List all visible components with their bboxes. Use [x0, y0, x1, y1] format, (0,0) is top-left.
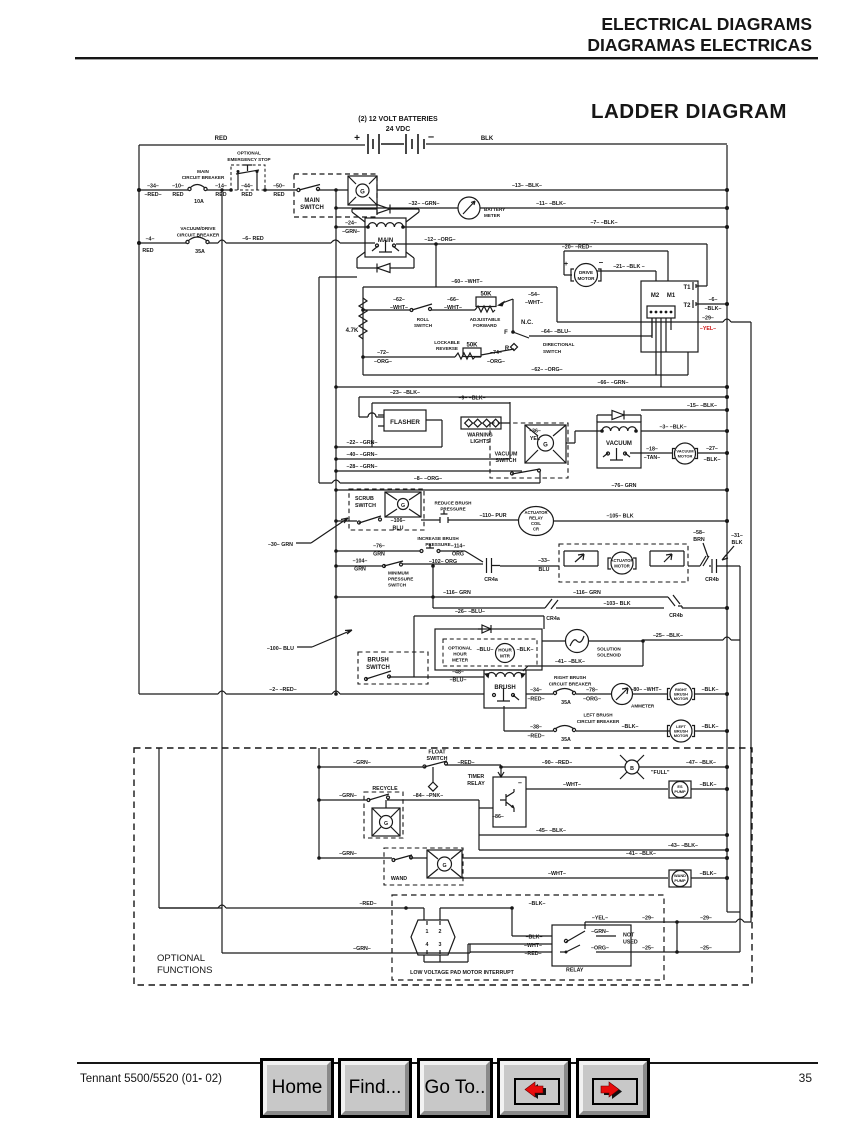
svg-text:CR4a: CR4a: [484, 577, 498, 583]
wire 41 BLK upper: [523, 641, 643, 671]
svg-text:FORWARD: FORWARD: [473, 323, 497, 328]
svg-text:4: 4: [426, 942, 429, 948]
svg-text:REVERSE: REVERSE: [436, 346, 458, 351]
wire 21 BLK: [597, 271, 656, 281]
svg-text:–31–: –31–: [731, 533, 743, 539]
svg-text:ADJUSTABLE: ADJUSTABLE: [470, 317, 501, 322]
svg-text:BRUSH: BRUSH: [494, 685, 515, 691]
horn G1: [348, 176, 377, 205]
svg-text:–40– –GRN–: –40– –GRN–: [347, 452, 378, 458]
motor M-vacuum: [673, 443, 698, 464]
svg-text:F: F: [504, 330, 508, 336]
svg-text:–30– GRN: –30– GRN: [268, 542, 293, 548]
svg-text:GRN: GRN: [354, 567, 366, 573]
footer buttons: [260, 1058, 334, 1118]
svg-text:–GRN–: –GRN–: [342, 229, 360, 235]
svg-text:MOTOR: MOTOR: [674, 696, 689, 701]
svg-text:3: 3: [439, 942, 442, 948]
motor M-right brush: [668, 683, 695, 705]
contactor K1 MAIN: [352, 205, 419, 273]
svg-text:MINIMUM: MINIMUM: [388, 571, 409, 576]
svg-text:–105– BLK: –105– BLK: [606, 514, 633, 520]
svg-text:G: G: [401, 503, 405, 509]
svg-text:PUMP: PUMP: [674, 789, 686, 794]
svg-text:–62– –ORG–: –62– –ORG–: [531, 367, 562, 373]
wire 62 WHT row y310: [363, 309, 475, 311]
svg-text:–BLK–: –BLK–: [702, 724, 719, 730]
wire main switch row y190: [139, 189, 727, 191]
motor M-left brush: [668, 720, 695, 742]
svg-text:–29–: –29–: [700, 916, 712, 922]
svg-text:SCRUB: SCRUB: [355, 496, 374, 502]
svg-text:–: –: [599, 258, 604, 267]
wire 28 GRN row y471: [336, 470, 522, 472]
wire YEL 29 relay out: [585, 919, 751, 926]
horn G4 recycle: [372, 808, 400, 836]
svg-text:BLK: BLK: [481, 136, 494, 142]
wire 43 BLK row y850: [479, 835, 727, 850]
svg-text:–62–: –62–: [393, 297, 405, 303]
controller U1 box: [641, 281, 698, 352]
svg-text:–BLK–: –BLK–: [700, 871, 717, 877]
svg-text:–104–: –104–: [353, 559, 368, 565]
svg-text:SWITCH: SWITCH: [355, 503, 376, 509]
svg-text:ROLL: ROLL: [417, 317, 430, 322]
wire RED row y909: [159, 905, 424, 908]
wire 72 ORG row y357: [363, 356, 455, 358]
svg-text:CR4b: CR4b: [669, 613, 684, 619]
svg-text:–: –: [518, 780, 522, 787]
wire scrub row y521: [336, 520, 357, 522]
svg-text:GRN: GRN: [373, 552, 385, 558]
svg-text:+: +: [564, 261, 568, 268]
svg-text:–ORG–: –ORG–: [487, 359, 505, 365]
svg-text:–28– –GRN–: –28– –GRN–: [347, 464, 378, 470]
svg-text:+: +: [354, 133, 360, 144]
terminal T2: [683, 297, 729, 312]
svg-text:–25–: –25–: [642, 946, 654, 952]
header title block: [75, 14, 818, 123]
wire float row y767: [319, 765, 727, 767]
wire 66 GRN row y387: [336, 386, 727, 388]
svg-text:–TAN–: –TAN–: [644, 455, 660, 461]
potentiometer R3 50K lockable reverse: [434, 340, 514, 359]
wire 22 GRN row y447: [336, 446, 442, 448]
wire 105 BLK: [554, 520, 728, 522]
svg-text:ORG: ORG: [452, 552, 464, 558]
resistor R1 4.7K: [346, 298, 367, 339]
svg-text:–2– –RED–: –2– –RED–: [269, 687, 296, 693]
svg-text:CR4a: CR4a: [546, 616, 560, 622]
svg-text:–WHT–: –WHT–: [548, 871, 566, 877]
wire 116 GRN row y597: [336, 596, 663, 598]
wire 26 BLU loop: [414, 616, 544, 677]
solution solenoid L1: [542, 630, 643, 658]
switch S-vacuum: [490, 423, 568, 478]
svg-text:–BLK–: –BLK–: [702, 687, 719, 693]
svg-text:CIRCUIT BREAKER: CIRCUIT BREAKER: [549, 682, 592, 687]
svg-text:MTR: MTR: [500, 654, 511, 659]
wire 20 RED drive motor: [564, 251, 668, 281]
wire 29 YEL: [557, 319, 751, 922]
svg-text:OPTIONAL: OPTIONAL: [237, 151, 261, 156]
svg-text:–41– –BLK–: –41– –BLK–: [626, 851, 656, 857]
svg-text:–110– PUR: –110– PUR: [479, 513, 506, 519]
svg-text:–BLU–: –BLU–: [477, 647, 494, 653]
svg-text:–GRN–: –GRN–: [353, 760, 371, 766]
svg-text:–3– –BLK–: –3– –BLK–: [659, 425, 686, 431]
contact CR4a lower: [545, 599, 560, 609]
svg-text:MOTOR: MOTOR: [577, 276, 595, 281]
svg-text:–25–: –25–: [700, 946, 712, 952]
wire 4 RED breaker row y243: [139, 240, 375, 243]
switch S-reduce brush pressure: [421, 501, 477, 524]
svg-text:–WHT–: –WHT–: [563, 782, 581, 788]
svg-text:–6– RED: –6– RED: [242, 236, 264, 242]
svg-text:–27–: –27–: [706, 446, 718, 452]
annotation arrow 100 BLU: [297, 630, 352, 647]
svg-text:–45– –BLK–: –45– –BLK–: [536, 828, 566, 834]
svg-text:–54–: –54–: [528, 292, 540, 298]
far-right vertical x740: [739, 566, 741, 952]
svg-text:FUNCTIONS: FUNCTIONS: [157, 965, 212, 976]
wire wand row y858: [319, 857, 727, 859]
switch S-float: [423, 750, 448, 792]
svg-text:BLU: BLU: [539, 567, 550, 573]
svg-text:–34–: –34–: [147, 184, 159, 190]
svg-text:INCREASE BRUSH: INCREASE BRUSH: [417, 536, 459, 541]
svg-text:–72–: –72–: [377, 350, 389, 356]
left rail: [138, 145, 140, 694]
svg-text:–ORG–: –ORG–: [591, 946, 609, 952]
annotation arrow 30 GRN: [296, 518, 348, 543]
svg-text:–: –: [428, 131, 434, 143]
svg-text:–BLK–: –BLK–: [529, 901, 546, 907]
svg-text:METER: METER: [484, 213, 501, 218]
wire WHT es pump row y789: [526, 788, 668, 790]
svg-text:RED: RED: [215, 192, 226, 198]
switch S-brush: [358, 652, 428, 684]
wire 32 GRN row y208: [336, 207, 458, 209]
svg-text:M2: M2: [651, 293, 660, 299]
svg-text:B: B: [630, 766, 634, 772]
svg-text:–RED–: –RED–: [527, 734, 544, 740]
svg-text:BLK: BLK: [732, 540, 743, 546]
svg-text:–43– –BLK–: –43– –BLK–: [668, 843, 698, 849]
svg-text:–66– –GRN–: –66– –GRN–: [598, 380, 629, 386]
svg-text:–102– ORG: –102– ORG: [429, 559, 457, 565]
wire 12 ORG: [396, 244, 707, 287]
svg-text:–44–: –44–: [241, 184, 253, 190]
switch S-wand: [384, 848, 463, 885]
svg-text:35A: 35A: [561, 700, 571, 706]
wire wand pump row y878: [462, 877, 668, 879]
actuator motor assembly: [559, 544, 688, 582]
svg-text:LOW VOLTAGE PAD MOTOR INTERRUP: LOW VOLTAGE PAD MOTOR INTERRUPT: [410, 970, 515, 976]
svg-text:SWITCH: SWITCH: [414, 323, 433, 328]
wire top positive: [139, 144, 365, 146]
svg-text:RIGHT BRUSH: RIGHT BRUSH: [554, 675, 587, 680]
svg-text:–58–: –58–: [693, 530, 705, 536]
svg-text:CR: CR: [533, 527, 539, 532]
svg-text:–GRN–: –GRN–: [353, 946, 371, 952]
svg-text:METER: METER: [452, 658, 469, 663]
wire 9 BLK flasher loop: [372, 403, 510, 447]
svg-text:–BLK–: –BLK–: [526, 935, 543, 941]
svg-text:N.C.: N.C.: [521, 320, 533, 326]
wire 45 BLK row y835: [479, 834, 727, 836]
switch S-estop optional emergency stop: [227, 151, 270, 192]
svg-text:DRIVE: DRIVE: [579, 270, 593, 275]
wire 27 BLK: [698, 452, 728, 454]
svg-text:–78–: –78–: [586, 688, 598, 694]
svg-text:–BLU–: –BLU–: [450, 678, 467, 684]
motor M-drive: [564, 258, 604, 287]
wire increase row y551: [336, 551, 483, 562]
svg-text:–9– –BLK–: –9– –BLK–: [458, 396, 485, 402]
relay coil CR actuator: [519, 507, 554, 536]
svg-text:–BLK–: –BLK–: [700, 782, 717, 788]
svg-text:HOUR: HOUR: [453, 652, 467, 657]
svg-text:SWITCH: SWITCH: [366, 665, 390, 671]
svg-text:–50–: –50–: [273, 184, 285, 190]
svg-text:MAIN: MAIN: [197, 169, 209, 174]
svg-text:RED: RED: [273, 192, 284, 198]
motor M-wand pump: [669, 870, 691, 887]
svg-text:1: 1: [426, 929, 429, 935]
svg-text:BLU: BLU: [393, 526, 404, 532]
wire ORG 25 relay out: [596, 922, 740, 952]
svg-text:24 VDC: 24 VDC: [386, 126, 411, 133]
svg-text:RELAY: RELAY: [467, 781, 485, 787]
hour meter assembly: [435, 625, 542, 670]
svg-text:–38–: –38–: [530, 725, 542, 731]
svg-text:M1: M1: [667, 293, 676, 299]
svg-text:HOUR: HOUR: [498, 648, 512, 653]
svg-text:FLASHER: FLASHER: [390, 419, 420, 426]
svg-text:–114–: –114–: [451, 544, 465, 550]
svg-text:–106–: –106–: [391, 518, 406, 524]
svg-text:T2: T2: [683, 303, 691, 309]
svg-text:–100– BLU: –100– BLU: [267, 646, 294, 652]
switch S-minimum pressure: [383, 561, 414, 588]
svg-text:WAND: WAND: [391, 876, 407, 882]
wire GRN row y953: [222, 944, 470, 953]
wire 2 RED row y694: [139, 691, 484, 694]
svg-text:YEL: YEL: [530, 436, 541, 442]
svg-text:–32– –GRN–: –32– –GRN–: [409, 201, 440, 207]
wire 11 BLK: [480, 207, 727, 209]
circuit breaker CB2 35A: [177, 226, 220, 255]
svg-text:–13– –BLK–: –13– –BLK–: [512, 183, 542, 189]
svg-text:–48–: –48–: [452, 670, 464, 676]
svg-text:RED: RED: [215, 136, 228, 142]
svg-text:–BLK–: –BLK–: [705, 306, 722, 312]
svg-text:OPTIONAL: OPTIONAL: [448, 646, 472, 651]
potentiometer R2 50K adjustable forward: [470, 292, 513, 329]
svg-text:EMERGENCY STOP: EMERGENCY STOP: [227, 157, 270, 162]
svg-text:ACTUATOR: ACTUATOR: [610, 558, 633, 563]
svg-text:–ORG–: –ORG–: [374, 359, 392, 365]
svg-text:–WHT–: –WHT–: [390, 305, 408, 311]
svg-text:–25– –BLK–: –25– –BLK–: [653, 633, 683, 639]
svg-text:CIRCUIT BREAKER: CIRCUIT BREAKER: [182, 175, 225, 180]
svg-text:RED: RED: [142, 248, 153, 254]
wire 80 WHT: [633, 693, 668, 695]
svg-text:SWITCH: SWITCH: [300, 205, 324, 211]
svg-text:MOTOR: MOTOR: [674, 733, 689, 738]
svg-text:–21– –BLK –: –21– –BLK –: [613, 264, 645, 270]
svg-text:–41– –BLK–: –41– –BLK–: [555, 659, 585, 665]
horn G2 vacuum: [525, 425, 566, 463]
svg-text:CR4b: CR4b: [705, 577, 720, 583]
wire 48 BLU: [414, 676, 484, 678]
svg-text:–YEL–: –YEL–: [592, 916, 608, 922]
svg-text:LOCKABLE: LOCKABLE: [434, 340, 460, 345]
svg-text:REDUCE BRUSH: REDUCE BRUSH: [434, 501, 472, 506]
horn G5 wand: [427, 850, 462, 878]
relay K4: [552, 925, 631, 974]
connector J1: [411, 908, 512, 962]
capacitor CR4a contact: [484, 558, 500, 583]
svg-text:LADDER DIAGRAM: LADDER DIAGRAM: [591, 100, 787, 123]
svg-text:–RED–: –RED–: [527, 697, 544, 703]
node loop into lower-left of contactor: [319, 277, 357, 483]
svg-text:WARNING: WARNING: [467, 433, 493, 439]
svg-text:–RED–: –RED–: [359, 901, 376, 907]
vertical feeder x159: [159, 748, 222, 908]
svg-text:–36–: –36–: [529, 429, 541, 435]
svg-text:VACUUM: VACUUM: [606, 441, 632, 447]
svg-text:PUMP: PUMP: [674, 878, 686, 883]
svg-text:BRN: BRN: [693, 537, 705, 543]
wire 3 BLK: [641, 430, 727, 432]
svg-text:USED: USED: [623, 940, 638, 946]
svg-text:G: G: [543, 443, 548, 449]
svg-text:–10–: –10–: [172, 184, 184, 190]
svg-text:–WHT–: –WHT–: [444, 305, 462, 311]
svg-text:–ORG–: –ORG–: [583, 697, 601, 703]
svg-text:–12– –ORG–: –12– –ORG–: [424, 237, 455, 243]
battery B1: [354, 116, 438, 154]
svg-text:LEFT BRUSH: LEFT BRUSH: [583, 713, 613, 718]
svg-text:–34–: –34–: [530, 688, 542, 694]
left brush breaker row y731: [504, 706, 670, 743]
wire GRN not used: [596, 935, 616, 937]
timer relay TR1: [467, 767, 526, 827]
vertical feeder x319 lower: [318, 748, 320, 858]
svg-text:–4–: –4–: [146, 237, 155, 243]
wire 7 BLK: [403, 226, 727, 228]
svg-text:MOTOR: MOTOR: [614, 564, 630, 569]
controller pin wires: [652, 318, 671, 387]
svg-text:–47– –BLK–: –47– –BLK–: [686, 760, 716, 766]
svg-text:"FULL": "FULL": [651, 770, 670, 776]
svg-text:ACTUATOR: ACTUATOR: [524, 510, 547, 515]
svg-text:G: G: [442, 863, 446, 869]
svg-text:–6–: –6–: [709, 297, 718, 303]
svg-text:TIMER: TIMER: [468, 774, 485, 780]
svg-text:–80– –WHT–: –80– –WHT–: [630, 687, 661, 693]
switch S-recycle: [364, 786, 403, 838]
switch S-increase brush pressure: [417, 536, 459, 553]
svg-text:SWITCH: SWITCH: [543, 349, 562, 354]
svg-text:35A: 35A: [561, 737, 571, 743]
low voltage pad motor interrupt enclosure: [392, 895, 664, 980]
svg-text:–103– BLK: –103– BLK: [603, 601, 630, 607]
svg-text:–86–: –86–: [492, 814, 504, 820]
svg-text:RED: RED: [172, 192, 183, 198]
svg-text:MOTOR: MOTOR: [678, 454, 693, 459]
svg-text:RELAY: RELAY: [566, 968, 584, 974]
svg-text:–20– –RED–: –20– –RED–: [562, 245, 592, 251]
svg-text:DIRECTIONAL: DIRECTIONAL: [543, 342, 575, 347]
svg-text:SWITCH: SWITCH: [496, 458, 517, 464]
svg-text:FLOAT: FLOAT: [428, 750, 446, 756]
svg-text:–7– –BLK–: –7– –BLK–: [590, 220, 617, 226]
wire 40 GRN row y459: [336, 458, 510, 460]
svg-text:–60– –WHT–: –60– –WHT–: [451, 279, 482, 285]
ammeter A1: [612, 684, 655, 709]
svg-text:–76–: –76–: [373, 544, 385, 550]
svg-text:SOLUTION: SOLUTION: [597, 647, 621, 652]
terminal T1: [683, 244, 707, 291]
wire 76 GRN row y490: [336, 489, 727, 491]
svg-text:–29–: –29–: [642, 916, 654, 922]
svg-text:DIAGRAMAS ELECTRICAS: DIAGRAMAS ELECTRICAS: [587, 35, 812, 55]
svg-text:–11– –BLK–: –11– –BLK–: [536, 201, 566, 207]
wire 36 YEL: [566, 431, 602, 443]
svg-text:–BLK–: –BLK–: [622, 724, 639, 730]
wire 64 BLU: [529, 318, 652, 336]
svg-text:ELECTRICAL DIAGRAMS: ELECTRICAL DIAGRAMS: [601, 14, 812, 34]
svg-text:–90– –RED–: –90– –RED–: [542, 760, 572, 766]
warning lights WL1: [461, 402, 510, 459]
svg-text:–76– GRN: –76– GRN: [611, 483, 636, 489]
svg-text:VACUUM: VACUUM: [495, 452, 518, 458]
svg-text:BRUSH: BRUSH: [367, 658, 388, 664]
svg-text:G: G: [384, 821, 388, 827]
svg-text:–YEL–: –YEL–: [700, 326, 716, 332]
svg-text:–WHT–: –WHT–: [525, 300, 543, 306]
wire 23 BLK row y397: [359, 397, 727, 417]
svg-text:–GRN–: –GRN–: [591, 929, 609, 935]
speed control box: [363, 287, 688, 375]
svg-text:(2) 12 VOLT BATTERIES: (2) 12 VOLT BATTERIES: [358, 116, 438, 123]
vertical feeder x222: [221, 190, 223, 953]
svg-text:–66–: –66–: [447, 297, 459, 303]
motor M-es pump: [669, 781, 691, 798]
wire 104 GRN row y566: [336, 564, 483, 566]
svg-text:–74–: –74–: [490, 350, 502, 356]
svg-text:AMMETER: AMMETER: [631, 704, 655, 709]
svg-text:–GRN–: –GRN–: [339, 793, 357, 799]
svg-text:RED: RED: [241, 192, 252, 198]
svg-text:–RED–: –RED–: [457, 760, 474, 766]
svg-text:–GRN–: –GRN–: [339, 851, 357, 857]
svg-text:–18–: –18–: [646, 447, 658, 453]
circuit breaker CB1 10A: [182, 169, 225, 205]
svg-text:COIL: COIL: [531, 521, 541, 526]
svg-text:SOLENOID: SOLENOID: [597, 653, 622, 658]
svg-text:LIGHTS: LIGHTS: [470, 439, 490, 445]
wire 103 BLK row y608: [433, 566, 727, 608]
contactor K2 VACUUM: [597, 411, 641, 469]
wire 25 BLK: [643, 637, 740, 640]
svg-text:RELAY: RELAY: [529, 516, 543, 521]
vertical feeder x336: [335, 190, 337, 694]
rail bottom link: [727, 911, 740, 913]
